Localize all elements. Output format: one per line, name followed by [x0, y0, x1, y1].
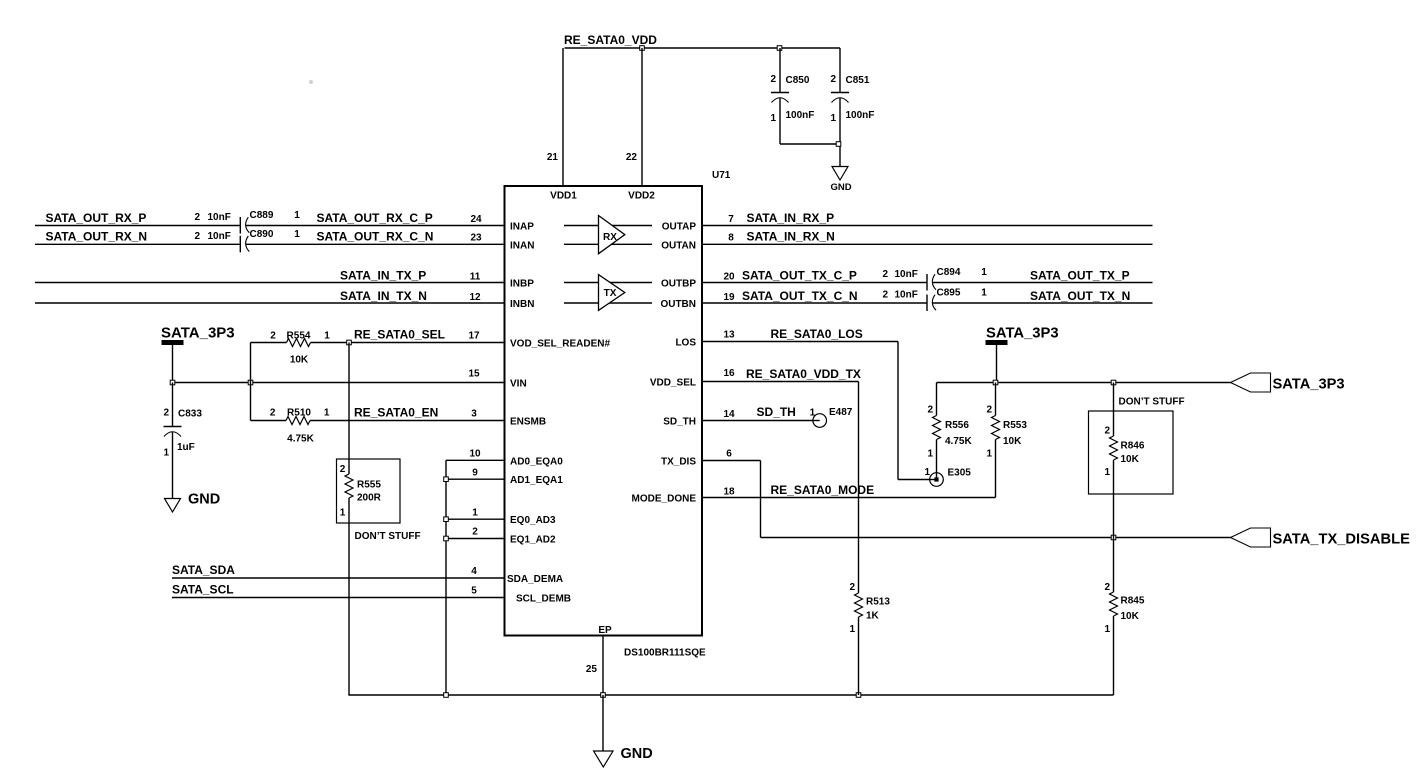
pin number 12: [469, 292, 481, 303]
pin name OUTBN: [660, 299, 696, 310]
junction R554/R510 branch: [248, 380, 253, 385]
svg-text:R513: R513: [866, 597, 890, 608]
svg-text:1: 1: [1104, 467, 1110, 478]
net label SATA_SDA: [172, 563, 235, 577]
svg-text:2: 2: [340, 464, 346, 475]
svg-text:1: 1: [924, 467, 930, 478]
svg-text:VDD_SEL: VDD_SEL: [650, 378, 696, 389]
svg-text:ENSMB: ENSMB: [510, 417, 546, 428]
svg-text:EQ0_AD3: EQ0_AD3: [510, 515, 556, 526]
svg-text:R556: R556: [945, 420, 969, 431]
svg-text:1: 1: [981, 267, 987, 278]
svg-text:SATA_OUT_RX_P: SATA_OUT_RX_P: [46, 211, 147, 225]
buffer RX through lines: [564, 226, 652, 245]
wire ground bus bottom: [348, 694, 1113, 696]
net label SATA_OUT_RX_C_N: [317, 230, 434, 244]
svg-text:SATA_OUT_RX_C_N: SATA_OUT_RX_C_N: [317, 230, 434, 244]
net label SATA_OUT_TX_C_P: [742, 269, 857, 283]
svg-text:100nF: 100nF: [846, 110, 875, 121]
svg-text:14: 14: [723, 409, 735, 420]
wire SATA_OUT_TX_C_N from pin 19: [702, 302, 927, 304]
capacitor C889: [194, 210, 300, 234]
ground GND (bottom): [594, 746, 653, 767]
pin number 21: [547, 152, 559, 163]
resistor R554: [251, 331, 350, 366]
svg-text:13: 13: [723, 330, 735, 341]
capacitor C890: [194, 229, 300, 252]
pin name AD1_EQA1: [510, 475, 563, 486]
junction RE_SATA0_SEL/R555: [347, 340, 352, 345]
resistor R553: [986, 383, 1027, 498]
pin number 20: [723, 272, 735, 283]
svg-text:1: 1: [472, 508, 478, 519]
svg-text:E487: E487: [829, 407, 853, 418]
wire SATA_3P3 to VIN pin 15: [173, 382, 505, 384]
svg-text:RE_SATA0_VDD_TX: RE_SATA0_VDD_TX: [746, 367, 861, 381]
svg-text:4.75K: 4.75K: [287, 434, 314, 445]
pin name MODE_DONE: [632, 494, 697, 505]
wire EP pin 25 drop: [602, 636, 604, 696]
pin number 18: [723, 487, 735, 498]
svg-text:C894: C894: [937, 267, 961, 278]
svg-text:6: 6: [726, 449, 732, 460]
junction bus/AD straps: [444, 693, 449, 698]
pin name VDD2: [628, 191, 655, 202]
svg-text:RE_SATA0_LOS: RE_SATA0_LOS: [771, 327, 863, 341]
wire RE_SATA0_MODE from pin 18: [702, 497, 996, 499]
wire VDD2 pin 22 drop: [641, 48, 643, 186]
net label SATA_OUT_TX_N: [1030, 289, 1130, 303]
svg-text:7: 7: [728, 214, 734, 225]
wire SATA_IN_RX_P from pin 7: [702, 225, 1153, 227]
wire EP to GND: [602, 695, 604, 752]
wire SATA_OUT_TX_N: [932, 302, 1152, 304]
pin name VDD1: [550, 191, 577, 202]
svg-text:SD_TH: SD_TH: [757, 405, 796, 419]
wire SATA_3P3 drop: [172, 345, 174, 383]
wire SATA_IN_TX_P to pin 11: [35, 282, 505, 284]
designator U71: [712, 170, 731, 181]
svg-text:10nF: 10nF: [208, 231, 231, 242]
wire SATA_SDA to pin 4: [172, 577, 505, 579]
resistor R513: [849, 582, 890, 695]
svg-text:SATA_OUT_RX_C_P: SATA_OUT_RX_C_P: [317, 211, 433, 225]
pin name VDD_SEL: [650, 378, 696, 389]
capacitor C894: [882, 267, 987, 291]
svg-text:RE_SATA0_SEL: RE_SATA0_SEL: [354, 328, 445, 342]
wire branch down to R510: [250, 383, 252, 421]
svg-text:2: 2: [472, 527, 478, 538]
svg-text:DS100BR111SQE: DS100BR111SQE: [624, 648, 706, 659]
pin number 7: [728, 214, 734, 225]
net label RE_SATA0_EN: [354, 406, 438, 420]
pin number 8: [728, 233, 734, 244]
svg-text:RE_SATA0_VDD: RE_SATA0_VDD: [564, 33, 657, 47]
resistor R555 (don't stuff): [337, 459, 401, 695]
svg-text:10K: 10K: [290, 355, 309, 366]
pin name EQ0_AD3: [510, 515, 556, 526]
pin name EQ1_AD2: [510, 535, 556, 546]
wire pin 9 AD1_EQA1: [446, 478, 505, 480]
pin name AD0_EQA0: [510, 456, 563, 467]
svg-text:SATA_3P3: SATA_3P3: [986, 326, 1059, 342]
power symbol SATA_3P3 (left): [161, 325, 235, 345]
wire RE_SATA0_EN to pin 3: [349, 420, 505, 422]
svg-text:EP: EP: [598, 625, 612, 636]
pin name TX_DIS: [661, 457, 696, 468]
resistor R845: [1104, 538, 1144, 696]
note DON'T STUFF (R846): [1119, 397, 1185, 408]
svg-text:1: 1: [324, 408, 330, 419]
svg-text:VIN: VIN: [510, 379, 527, 390]
svg-text:C833: C833: [178, 409, 202, 420]
power symbol SATA_3P3 (right): [986, 326, 1059, 345]
pin name LOS: [675, 338, 696, 349]
svg-text:1: 1: [927, 449, 933, 460]
svg-text:TX_DIS: TX_DIS: [661, 457, 696, 468]
wire pin 10 AD0_EQA0: [446, 459, 505, 461]
svg-text:C895: C895: [937, 288, 961, 299]
svg-text:16: 16: [723, 368, 735, 379]
net label SATA_SCL: [172, 583, 234, 597]
pin name EP: [598, 625, 612, 636]
junction pin 1 strap: [444, 517, 449, 522]
svg-text:1: 1: [986, 449, 992, 460]
pin number 9: [472, 468, 478, 479]
svg-text:LOS: LOS: [675, 338, 696, 349]
svg-text:DON’T STUFF: DON’T STUFF: [355, 531, 421, 542]
wire SD_TH from pin 14: [702, 420, 813, 422]
svg-text:INBN: INBN: [510, 299, 534, 310]
wire pin 2 EQ1_AD2: [446, 538, 505, 540]
resistor R846 (don't stuff): [1089, 383, 1174, 538]
svg-text:10K: 10K: [1121, 454, 1140, 465]
svg-text:SATA_SDA: SATA_SDA: [172, 563, 235, 577]
wire SATA_TX_DISABLE: [761, 537, 1231, 539]
svg-text:100nF: 100nF: [786, 110, 815, 121]
svg-text:SD_TH: SD_TH: [663, 417, 696, 428]
svg-text:1: 1: [849, 624, 855, 635]
svg-text:R554: R554: [287, 331, 311, 342]
wire SATA_OUT_TX_C_P from pin 20: [702, 282, 927, 284]
svg-text:19: 19: [723, 292, 735, 303]
svg-text:E305: E305: [948, 468, 972, 479]
svg-text:C850: C850: [786, 75, 810, 86]
wire RE_SATA0_VDD rail: [565, 47, 841, 49]
svg-text:1: 1: [770, 113, 776, 124]
net label SATA_OUT_RX_N: [46, 230, 148, 244]
wire SATA_3P3 drop to rail: [996, 345, 998, 383]
flag SATA_3P3: [1231, 373, 1345, 393]
svg-text:R845: R845: [1121, 596, 1145, 607]
svg-text:10nF: 10nF: [895, 269, 918, 280]
capacitor C850: [770, 48, 814, 144]
svg-text:10nF: 10nF: [895, 290, 918, 301]
svg-text:2: 2: [270, 408, 276, 419]
IC U71 DS100BR111SQE body: [505, 186, 703, 636]
part number DS100BR111SQE: [624, 648, 706, 659]
net label SATA_IN_TX_P: [340, 269, 426, 283]
svg-text:U71: U71: [712, 170, 731, 181]
svg-text:SATA_SCL: SATA_SCL: [172, 583, 234, 597]
svg-text:5: 5: [471, 586, 477, 597]
svg-text:11: 11: [470, 272, 481, 283]
junction SATA_TX_DISABLE/R846: [1111, 535, 1116, 540]
junction rail/R846: [1111, 380, 1116, 385]
net label RE_SATA0_LOS: [771, 327, 863, 341]
svg-text:1: 1: [324, 331, 330, 342]
pin name SD_TH: [663, 417, 696, 428]
svg-text:10: 10: [469, 449, 481, 460]
svg-text:3: 3: [471, 409, 477, 420]
net label SATA_OUT_RX_P: [46, 211, 147, 225]
svg-text:OUTAN: OUTAN: [661, 240, 696, 251]
svg-text:INAN: INAN: [510, 240, 534, 251]
wire SATA_IN_RX_N from pin 8: [702, 243, 1153, 245]
junction at C851 bottom: [836, 142, 841, 147]
buffer TX through lines: [564, 283, 652, 304]
pin number 3: [471, 409, 477, 420]
pin name SDA_DEMA: [507, 574, 563, 585]
pin name INBP: [510, 279, 534, 290]
net label SATA_IN_RX_P: [747, 211, 835, 225]
pin number 13: [723, 330, 735, 341]
svg-text:1: 1: [163, 448, 169, 459]
buffer TX: [599, 275, 625, 311]
pin name OUTAN: [661, 240, 696, 251]
svg-text:2: 2: [270, 331, 276, 342]
svg-text:22: 22: [626, 152, 638, 163]
svg-text:R510: R510: [287, 408, 311, 419]
svg-text:OUTBP: OUTBP: [661, 279, 696, 290]
svg-text:1: 1: [810, 408, 816, 419]
svg-text:SATA_OUT_RX_N: SATA_OUT_RX_N: [46, 230, 148, 244]
pin number 19: [723, 292, 735, 303]
junction at C850 drop: [777, 46, 782, 51]
svg-text:OUTBN: OUTBN: [660, 299, 696, 310]
svg-text:2: 2: [849, 582, 855, 593]
ground GND (top): [831, 167, 852, 194]
wire SATA_SCL to pin 5: [172, 597, 505, 599]
svg-text:SATA_IN_TX_N: SATA_IN_TX_N: [340, 289, 427, 303]
svg-text:SATA_TX_DISABLE: SATA_TX_DISABLE: [1273, 532, 1411, 548]
svg-text:TX: TX: [604, 288, 617, 299]
svg-text:17: 17: [468, 331, 480, 342]
svg-text:10K: 10K: [1121, 611, 1140, 622]
svg-text:SATA_3P3: SATA_3P3: [161, 325, 235, 342]
wire cap bottoms to GND: [780, 144, 840, 167]
svg-text:C890: C890: [250, 229, 274, 240]
svg-text:SATA_OUT_TX_P: SATA_OUT_TX_P: [1030, 269, 1130, 283]
pin number 23: [470, 233, 482, 244]
svg-text:12: 12: [469, 292, 481, 303]
svg-text:1: 1: [294, 210, 300, 221]
svg-text:8: 8: [728, 233, 734, 244]
pin number 16: [723, 368, 735, 379]
svg-text:2: 2: [770, 74, 776, 85]
wire SATA_OUT_RX_C_P to pin 24: [246, 225, 505, 227]
ground GND (left): [165, 492, 221, 513]
svg-text:2: 2: [927, 405, 933, 416]
svg-text:SATA_IN_RX_N: SATA_IN_RX_N: [747, 230, 835, 244]
buffer RX: [599, 216, 625, 254]
net label SATA_IN_RX_N: [747, 230, 835, 244]
wire ground bus vertical (AD straps): [445, 460, 447, 695]
pin name ENSMB: [510, 417, 546, 428]
svg-text:9: 9: [472, 468, 478, 479]
pin number 22: [626, 152, 638, 163]
wire TX_DIS from pin 6: [702, 461, 761, 538]
svg-text:AD0_EQA0: AD0_EQA0: [510, 456, 563, 467]
junction pin 9 strap: [444, 477, 449, 482]
svg-text:GND: GND: [188, 492, 220, 508]
pin number 25: [586, 664, 598, 675]
pin name SCL_DEMB: [516, 594, 571, 605]
svg-text:C889: C889: [250, 210, 274, 221]
svg-text:200R: 200R: [357, 493, 382, 504]
net label SATA_OUT_TX_P: [1030, 269, 1130, 283]
junction pin 2 strap: [444, 536, 449, 541]
svg-text:1uF: 1uF: [177, 442, 195, 453]
wire SATA_OUT_RX_C_N to pin 23: [246, 243, 505, 245]
net label RE_SATA0_SEL: [354, 328, 445, 342]
pin name OUTAP: [662, 222, 697, 233]
svg-text:18: 18: [723, 487, 735, 498]
svg-text:SDA_DEMA: SDA_DEMA: [507, 574, 563, 585]
test point E305: [924, 467, 971, 486]
svg-text:10K: 10K: [1003, 436, 1022, 447]
note DON'T STUFF (R555): [355, 531, 421, 542]
wire RE_SATA0_LOS from pin 13: [702, 342, 931, 480]
wire pin 1 EQ0_AD3: [446, 518, 505, 520]
wire SATA_3P3 rail: [937, 382, 1231, 384]
wire SATA_OUT_RX_P: [35, 225, 240, 227]
pin number 14: [723, 409, 735, 420]
capacitor C851: [830, 48, 874, 144]
junction bus/EP: [601, 693, 606, 698]
pin name INBN: [510, 299, 534, 310]
svg-text:2: 2: [986, 405, 992, 416]
resistor R556: [927, 383, 972, 474]
svg-text:15: 15: [468, 369, 480, 380]
svg-text:24: 24: [470, 214, 482, 225]
svg-text:DON’T STUFF: DON’T STUFF: [1119, 397, 1185, 408]
svg-text:INAP: INAP: [510, 222, 534, 233]
capacitor C833: [163, 383, 202, 499]
svg-text:1: 1: [1104, 624, 1110, 635]
svg-text:RE_SATA0_EN: RE_SATA0_EN: [354, 406, 438, 420]
wire branch up to R554: [250, 343, 252, 383]
svg-text:EQ1_AD2: EQ1_AD2: [510, 535, 556, 546]
svg-text:25: 25: [586, 664, 598, 675]
pin number 10: [469, 449, 481, 460]
junction rail/R553: [993, 380, 998, 385]
svg-text:AD1_EQA1: AD1_EQA1: [510, 475, 563, 486]
svg-text:R846: R846: [1121, 441, 1145, 452]
net label RE_SATA0_VDD_TX: [746, 367, 861, 381]
svg-text:2: 2: [194, 231, 200, 242]
svg-text:4: 4: [471, 566, 477, 577]
svg-text:SCL_DEMB: SCL_DEMB: [516, 594, 571, 605]
svg-text:2: 2: [163, 408, 169, 419]
svg-text:2: 2: [1104, 582, 1110, 593]
svg-text:RX: RX: [603, 232, 617, 243]
svg-text:23: 23: [470, 233, 482, 244]
svg-text:2: 2: [194, 212, 200, 223]
svg-text:2: 2: [830, 74, 836, 85]
junction at VDD2 drop: [640, 46, 645, 51]
wire RE_SATA0_SEL down through crossings to R555: [348, 343, 350, 475]
pin number 4: [471, 566, 477, 577]
svg-text:21: 21: [547, 152, 559, 163]
svg-text:C851: C851: [846, 75, 870, 86]
svg-text:SATA_IN_RX_P: SATA_IN_RX_P: [747, 211, 835, 225]
net label RE_SATA0_MODE: [771, 483, 875, 497]
pin number 6: [726, 449, 732, 460]
resistor R510: [251, 408, 350, 445]
svg-text:MODE_DONE: MODE_DONE: [632, 494, 697, 505]
svg-text:R553: R553: [1003, 420, 1027, 431]
svg-text:SATA_3P3: SATA_3P3: [1273, 377, 1345, 393]
wire RE_SATA0_SEL to pin 17: [349, 342, 505, 344]
svg-text:2: 2: [1104, 426, 1110, 437]
svg-text:SATA_OUT_TX_C_N: SATA_OUT_TX_C_N: [742, 289, 858, 303]
pin number 5: [471, 586, 477, 597]
capacitor C895: [882, 288, 987, 312]
pin name INAP: [510, 222, 534, 233]
pin name VOD_SEL_READEN#: [510, 339, 610, 350]
test point E487: [810, 407, 853, 427]
svg-text:GND: GND: [831, 182, 852, 193]
svg-text:SATA_OUT_TX_C_P: SATA_OUT_TX_C_P: [742, 269, 857, 283]
wire SATA_OUT_RX_N: [35, 243, 240, 245]
svg-text:RE_SATA0_MODE: RE_SATA0_MODE: [771, 483, 875, 497]
svg-text:OUTAP: OUTAP: [662, 222, 697, 233]
junction bus/R513: [856, 693, 861, 698]
svg-text:1: 1: [340, 508, 346, 519]
pin number 15: [468, 369, 480, 380]
net label SD_TH: [757, 405, 796, 419]
wire SATA_OUT_TX_P: [932, 282, 1152, 284]
pin name INAN: [510, 240, 534, 251]
pin name OUTBP: [661, 279, 696, 290]
wire VDD1 pin 21 drop: [562, 48, 564, 186]
svg-text:GND: GND: [621, 746, 653, 762]
svg-text:R555: R555: [357, 480, 381, 491]
wire SATA_IN_TX_N to pin 12: [35, 302, 505, 304]
pin name VIN: [510, 379, 527, 390]
svg-text:SATA_IN_TX_P: SATA_IN_TX_P: [340, 269, 426, 283]
pin number 24: [470, 214, 482, 225]
svg-text:20: 20: [723, 272, 735, 283]
flag SATA_TX_DISABLE: [1231, 528, 1411, 548]
net label SATA_OUT_RX_C_P: [317, 211, 433, 225]
net label SATA_IN_TX_N: [340, 289, 427, 303]
wire RE_SATA0_VDD_TX from pin 16 to R513: [702, 382, 859, 594]
svg-text:VDD2: VDD2: [628, 191, 655, 202]
net label RE_SATA0_VDD: [564, 33, 657, 47]
svg-text:2: 2: [882, 269, 888, 280]
svg-text:10nF: 10nF: [208, 212, 231, 223]
svg-text:1: 1: [830, 113, 836, 124]
svg-text:VDD1: VDD1: [550, 191, 577, 202]
junction SATA_3P3/C833: [170, 380, 175, 385]
pin number 17: [468, 331, 480, 342]
svg-text:4.75K: 4.75K: [945, 436, 972, 447]
svg-text:1: 1: [294, 229, 300, 240]
svg-text:INBP: INBP: [510, 279, 534, 290]
net label SATA_OUT_TX_C_N: [742, 289, 858, 303]
